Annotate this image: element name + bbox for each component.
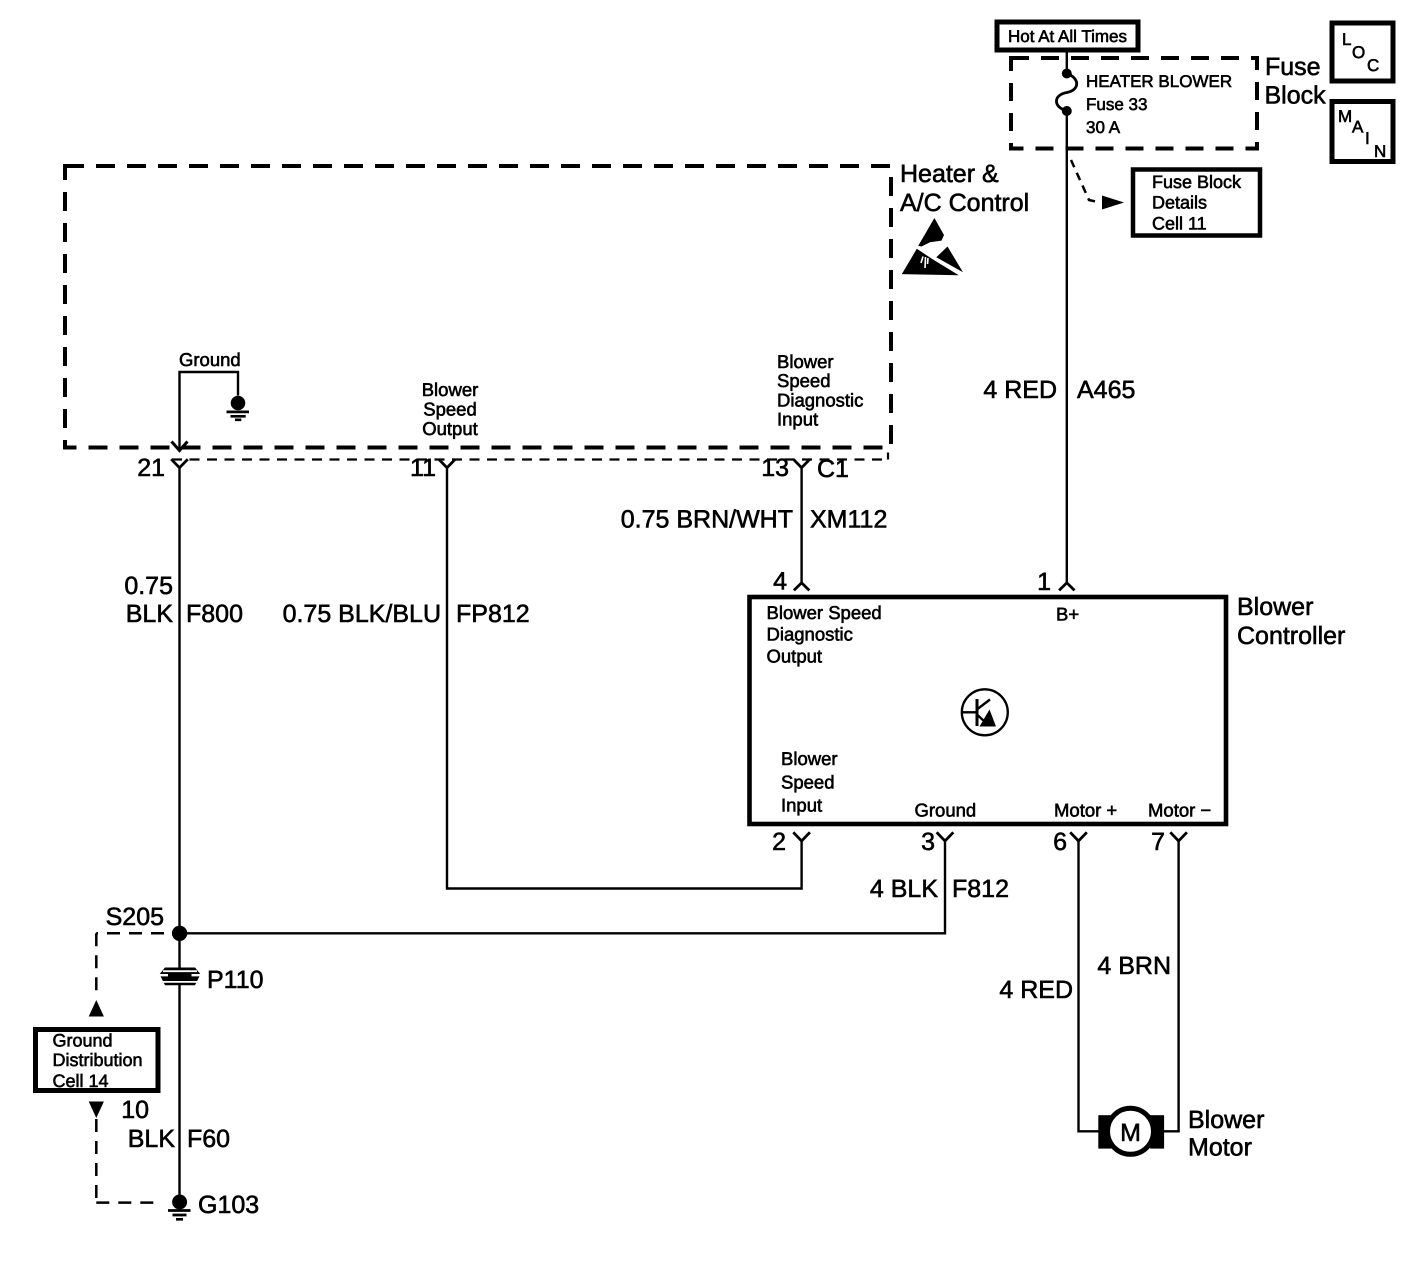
svg-text:Motor −: Motor − (1148, 800, 1211, 821)
svg-text:Input: Input (781, 795, 822, 816)
svg-text:S205: S205 (106, 903, 164, 931)
svg-text:M: M (1338, 107, 1352, 126)
wire F812: pin3 to S205 (180, 841, 945, 933)
svg-text:4 BRN: 4 BRN (1097, 952, 1171, 980)
svg-text:Speed: Speed (777, 370, 831, 391)
svg-text:P110: P110 (207, 966, 264, 994)
ground G103 (168, 1191, 259, 1219)
svg-text:Cell 11: Cell 11 (1152, 214, 1207, 234)
svg-text:Ground: Ground (915, 800, 977, 821)
wire motor - (1164, 841, 1179, 1131)
connector C1 dashed line (172, 453, 888, 460)
svg-text:Controller: Controller (1237, 622, 1345, 650)
svg-text:4: 4 (773, 568, 787, 596)
svg-text:30 A: 30 A (1086, 118, 1121, 137)
svg-text:A/C Control: A/C Control (900, 189, 1029, 217)
label 0.75 BLK/BLU FP812 (283, 600, 530, 628)
svg-text:O: O (1352, 43, 1365, 62)
svg-text:4 BLK: 4 BLK (870, 875, 938, 903)
wire B+ feed: fuse to pin 1 (1066, 111, 1068, 583)
svg-text:C1: C1 (817, 455, 849, 483)
svg-text:Speed: Speed (423, 399, 477, 420)
svg-text:B+: B+ (1056, 604, 1079, 625)
svg-text:Fuse: Fuse (1265, 53, 1321, 81)
svg-text:Fuse Block: Fuse Block (1152, 172, 1242, 192)
svg-text:0.75: 0.75 (124, 572, 173, 600)
controller internal labels (767, 602, 882, 667)
label Blower Controller (1237, 593, 1345, 650)
wire FP812 (447, 468, 802, 889)
svg-text:Motor +: Motor + (1054, 800, 1117, 821)
svg-text:C: C (1367, 56, 1379, 75)
label 10 BLK F60 (121, 1096, 230, 1153)
ground distribution box (36, 1030, 159, 1092)
heater a/c control dashed box (65, 166, 891, 448)
internal ground wire (172, 349, 241, 451)
svg-text:Cell 14: Cell 14 (53, 1071, 109, 1091)
pin labels above C1 (422, 379, 479, 439)
hot-at-all-times box (997, 22, 1138, 50)
svg-text:Blower Speed: Blower Speed (767, 602, 882, 623)
svg-text:M: M (1120, 1119, 1141, 1147)
svg-text:Ground: Ground (53, 1031, 113, 1051)
svg-text:1: 1 (1037, 568, 1051, 596)
pin 6 (1053, 828, 1087, 856)
dashed arrow to fuse block details (1071, 160, 1124, 210)
svg-text:A465: A465 (1077, 376, 1135, 404)
blower motor symbol (1098, 1108, 1164, 1154)
svg-text:BLK: BLK (128, 1125, 176, 1153)
dashed ground distribution path (89, 933, 164, 1202)
in-line connector P110 (156, 966, 264, 994)
LOC box (1332, 23, 1393, 81)
pin 2 (772, 828, 810, 856)
svg-text:Output: Output (422, 418, 478, 439)
fuse block details box (1133, 170, 1260, 236)
svg-text:6: 6 (1053, 828, 1067, 856)
svg-text:Heater &: Heater & (900, 160, 999, 188)
svg-text:F800: F800 (186, 600, 243, 628)
svg-text:7: 7 (1151, 828, 1165, 856)
pin 11 (410, 454, 455, 482)
svg-text:HEATER BLOWER: HEATER BLOWER (1086, 72, 1232, 91)
wire motor + (1079, 841, 1099, 1131)
pin 4 male (773, 568, 809, 596)
svg-text:21: 21 (137, 454, 165, 482)
pin 3 (921, 828, 953, 856)
svg-text:G103: G103 (198, 1191, 259, 1219)
transistor symbol (962, 689, 1008, 735)
pin 7 (1151, 828, 1187, 856)
svg-text:BLK: BLK (126, 600, 174, 628)
svg-text:Fuse 33: Fuse 33 (1086, 95, 1147, 114)
svg-text:Blower: Blower (1188, 1106, 1264, 1134)
svg-text:0.75 BLK/BLU: 0.75 BLK/BLU (283, 600, 441, 628)
wire from hot box to fuse (1066, 50, 1068, 74)
svg-text:Motor: Motor (1188, 1134, 1252, 1162)
label 0.75 BRN/WHT XM112 (621, 506, 888, 534)
svg-text:Block: Block (1265, 82, 1327, 110)
svg-text:Blower: Blower (781, 748, 838, 769)
ESD sensitive symbol (902, 218, 963, 275)
svg-text:Diagnostic: Diagnostic (777, 390, 863, 411)
svg-text:Hot At All Times: Hot At All Times (1008, 27, 1127, 46)
pin 1 male (1037, 568, 1074, 596)
svg-text:Ground: Ground (179, 349, 241, 370)
svg-text:Speed: Speed (781, 772, 835, 793)
svg-text:L: L (1342, 30, 1351, 49)
svg-text:3: 3 (921, 828, 935, 856)
svg-text:4 RED: 4 RED (999, 976, 1073, 1004)
svg-text:Distribution: Distribution (53, 1050, 143, 1070)
svg-text:0.75 BRN/WHT: 0.75 BRN/WHT (621, 506, 793, 534)
splice S205 junction dot (172, 926, 187, 941)
label Blower Motor (1188, 1106, 1264, 1162)
svg-text:4 RED: 4 RED (983, 376, 1057, 404)
internal chassis ground symbol (227, 396, 250, 420)
fuse F33 symbol (1056, 69, 1076, 117)
label 4 BLK F812 (870, 875, 1009, 903)
svg-text:FP812: FP812 (456, 600, 530, 628)
svg-text:I: I (1365, 129, 1370, 148)
svg-text:N: N (1374, 142, 1386, 161)
svg-text:Diagnostic: Diagnostic (767, 624, 853, 645)
fuse block dashed box (1011, 58, 1257, 149)
MAIN box (1332, 102, 1393, 162)
svg-text:Input: Input (777, 409, 818, 430)
label 0.75 BLK F800 (124, 572, 243, 628)
label Heater & A/C Control (900, 160, 1029, 217)
svg-text:Blower: Blower (422, 379, 479, 400)
pin 13 (761, 454, 849, 483)
pin 21 (137, 454, 188, 482)
blower controller box (750, 597, 1227, 824)
svg-text:XM112: XM112 (810, 506, 887, 534)
label Fuse Block (1265, 53, 1327, 110)
wire XM112: pin13 to pin4 (800, 468, 802, 583)
wire F800 left vertical (178, 468, 180, 1195)
svg-text:A: A (1352, 118, 1364, 137)
svg-text:10: 10 (121, 1096, 149, 1124)
svg-text:Details: Details (1152, 193, 1207, 213)
svg-text:13: 13 (761, 454, 789, 482)
svg-text:Output: Output (767, 646, 823, 667)
svg-text:11: 11 (410, 454, 436, 482)
wire label 4 RED A465 (983, 376, 1135, 404)
svg-text:F60: F60 (187, 1125, 230, 1153)
svg-text:Blower: Blower (1237, 593, 1313, 621)
svg-text:Blower: Blower (777, 351, 834, 372)
svg-text:F812: F812 (952, 875, 1009, 903)
fuse label (1086, 72, 1232, 137)
svg-text:2: 2 (772, 828, 786, 856)
